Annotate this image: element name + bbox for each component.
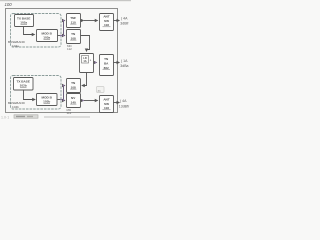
svg-text:BA: BA — [104, 61, 109, 65]
box 110a — [67, 14, 81, 28]
wire out top — [114, 20, 120, 22]
caption bar — [14, 115, 38, 118]
svg-text:108: 108 — [71, 85, 76, 89]
box T1a — [15, 15, 34, 27]
svg-text:100: 100 — [5, 2, 13, 7]
dashed block 102b — [11, 76, 62, 110]
box T1b — [14, 78, 34, 91]
wire T1a to T2a — [24, 27, 35, 35]
svg-text:103b: 103b — [43, 100, 50, 104]
svg-text:118: 118 — [104, 106, 109, 110]
outer box 100 — [6, 9, 118, 113]
svg-text:104b: 104b — [12, 105, 19, 109]
svg-text:102b: 102b — [20, 84, 27, 88]
junction column bottom — [63, 86, 65, 101]
box T2b — [37, 94, 58, 106]
box 118b — [100, 96, 114, 113]
wire into box4a — [64, 35, 65, 37]
junction node dots bottom — [60, 99, 62, 101]
svg-text:118: 118 — [104, 23, 109, 27]
top edge line — [0, 0, 131, 1]
svg-text:1A: 1A — [83, 59, 86, 63]
svg-text:104a: 104a — [12, 44, 19, 48]
svg-text:3dBa: 3dBa — [120, 64, 128, 68]
dashed block 102a — [11, 14, 62, 48]
svg-text:140: 140 — [71, 100, 76, 104]
LO box 114 — [80, 54, 94, 73]
wire LO to box B — [94, 62, 97, 64]
wire T2a out — [58, 35, 64, 37]
small faint box 86 — [97, 87, 105, 93]
junction node mid — [95, 62, 97, 64]
svg-text:86: 86 — [98, 89, 102, 93]
svg-text:112: 112 — [67, 47, 72, 51]
svg-text:862: 862 — [104, 66, 109, 70]
wire box3a to box5a — [81, 20, 84, 22]
svg-text:1.0·1: 1.0·1 — [1, 115, 9, 119]
wire box4a to LO — [81, 36, 90, 52]
svg-text:3dBfr: 3dBfr — [120, 22, 129, 26]
page background — [0, 0, 131, 120]
svg-text:13dBfr: 13dBfr — [119, 105, 130, 109]
svg-text:103a: 103a — [43, 36, 50, 40]
wire out mid — [114, 62, 120, 64]
svg-text:102a: 102a — [20, 21, 27, 25]
wire LO to box3b — [82, 73, 87, 86]
svg-text:( 4A: ( 4A — [120, 99, 127, 103]
wire out bottom — [114, 102, 120, 104]
svg-text:108: 108 — [71, 36, 76, 40]
box 118a — [100, 14, 114, 31]
wire into box4b — [64, 100, 65, 102]
caption line right — [44, 116, 90, 118]
box 108a — [67, 30, 81, 44]
box 110b — [67, 94, 81, 108]
svg-text:( 4A: ( 4A — [121, 17, 128, 21]
box 108b — [67, 79, 81, 93]
box 116 — [100, 55, 114, 76]
wire T2b out — [58, 99, 64, 101]
svg-text:112: 112 — [67, 111, 72, 115]
wire box4b to box5b — [81, 100, 84, 102]
junction node — [82, 100, 83, 101]
wire T1b to T2b — [24, 90, 36, 100]
svg-text:( 1A: ( 1A — [121, 59, 128, 63]
wire into box3a — [64, 20, 65, 22]
junction node dots — [60, 35, 62, 37]
svg-text:110: 110 — [71, 20, 76, 24]
wire into box3b — [64, 85, 65, 87]
junction column top — [63, 21, 65, 36]
box T2a — [37, 30, 58, 42]
